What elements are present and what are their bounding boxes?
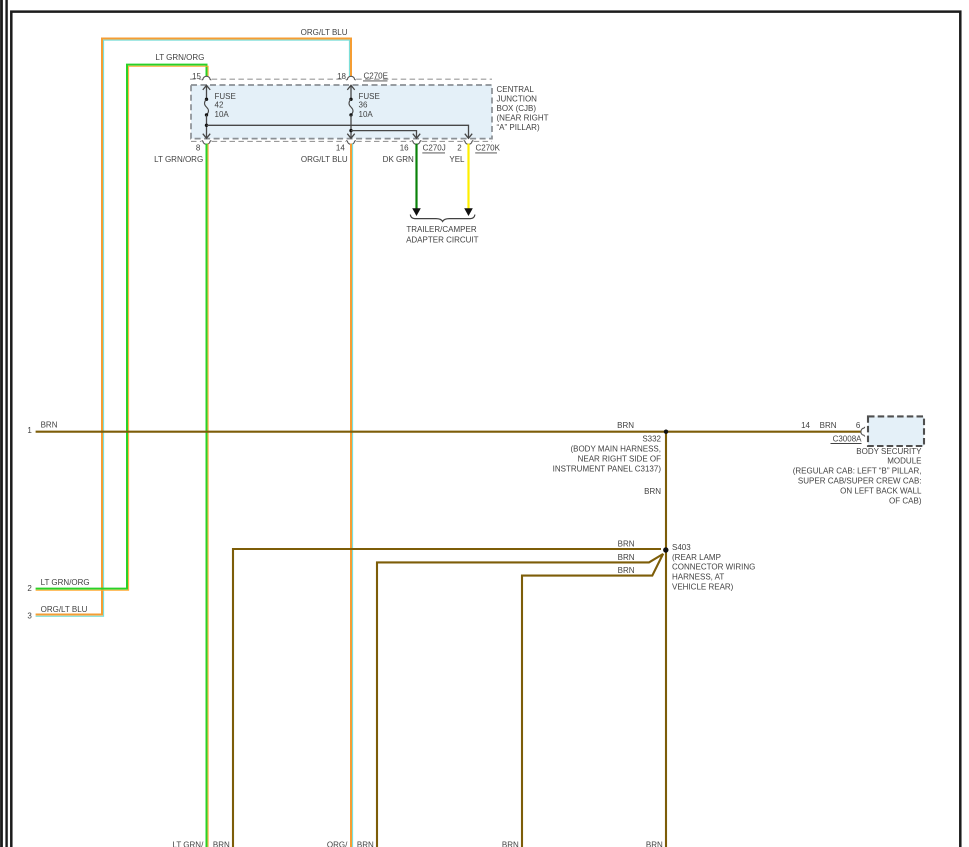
connector C270K label — [475, 144, 500, 153]
svg-text:(REAR LAMP: (REAR LAMP — [672, 553, 721, 562]
svg-text:OF CAB): OF CAB) — [889, 496, 922, 505]
svg-text:BRN: BRN — [820, 421, 837, 430]
connector C270J label — [422, 144, 445, 153]
pin 2 connector cup — [464, 141, 474, 145]
svg-text:6: 6 — [856, 421, 861, 430]
svg-text:VEHICLE REAR): VEHICLE REAR) — [672, 582, 734, 591]
svg-text:C270E: C270E — [364, 72, 388, 81]
CJB connector C270E dashed line (top) — [190, 78, 492, 80]
brace trailer/camper adapter circuit — [410, 215, 475, 222]
central junction box CJB — [191, 85, 492, 139]
svg-text:18: 18 — [337, 72, 346, 81]
svg-text:ORG/LT BLU: ORG/LT BLU — [301, 28, 348, 37]
svg-text:CONNECTOR WIRING: CONNECTOR WIRING — [672, 563, 755, 572]
svg-text:DK GRN: DK GRN — [383, 155, 414, 164]
splice S403 label — [672, 543, 755, 591]
wire BRN vertical S332 to bottom — [665, 432, 667, 847]
svg-text:3: 3 — [27, 611, 32, 620]
page edge line 2 — [5, 0, 7, 847]
svg-text:(NEAR RIGHT: (NEAR RIGHT — [497, 113, 549, 122]
svg-text:TRAILER/CAMPER: TRAILER/CAMPER — [406, 225, 476, 234]
svg-text:(REGULAR CAB: LEFT “B” PILLAR,: (REGULAR CAB: LEFT “B” PILLAR, — [793, 467, 922, 476]
internal wire from F42 to pin 2 — [207, 125, 473, 138]
svg-text:C3008A: C3008A — [833, 434, 863, 443]
pin 8 connector cup — [202, 141, 212, 145]
pin 16 connector cup — [412, 141, 422, 145]
fuse F42 — [203, 85, 210, 138]
svg-text:BRN: BRN — [617, 421, 634, 430]
svg-text:BRN: BRN — [357, 841, 374, 847]
trailer/camper adapter circuit label — [406, 225, 479, 244]
wire ORG/LT BLU : from net 3 up over to CJB pin 18 — [36, 39, 351, 617]
svg-text:BRN: BRN — [41, 421, 58, 430]
splice S332 — [664, 430, 668, 434]
svg-text:INSTRUMENT PANEL C3137): INSTRUMENT PANEL C3137) — [553, 464, 662, 473]
fuse F36 — [347, 85, 354, 138]
svg-text:HARNESS, AT: HARNESS, AT — [672, 572, 724, 581]
svg-text:BOX (CJB): BOX (CJB) — [497, 104, 537, 113]
fuse F42 value label — [215, 92, 236, 119]
svg-text:2: 2 — [457, 144, 462, 153]
svg-text:8: 8 — [196, 144, 201, 153]
svg-text:ADAPTER CIRCUIT: ADAPTER CIRCUIT — [406, 235, 479, 244]
svg-text:ORG/LT BLU: ORG/LT BLU — [301, 155, 348, 164]
svg-text:LT GRN/ORG: LT GRN/ORG — [155, 53, 204, 62]
svg-text:LT GRN/: LT GRN/ — [172, 841, 204, 847]
svg-text:NEAR RIGHT SIDE OF: NEAR RIGHT SIDE OF — [578, 455, 662, 464]
pin 18 connector cup — [346, 76, 356, 80]
svg-text:C270J: C270J — [423, 144, 446, 153]
svg-text:ORG/: ORG/ — [327, 841, 348, 847]
wire LT GRN/ORG from pin 8 down — [207, 144, 209, 847]
svg-text:YEL: YEL — [449, 155, 465, 164]
svg-text:S332: S332 — [642, 435, 661, 444]
arrowhead DK GRN to trailer circuit — [412, 208, 421, 216]
svg-text:2: 2 — [27, 584, 32, 593]
svg-text:42: 42 — [215, 100, 224, 109]
svg-text:MODULE: MODULE — [887, 457, 921, 466]
internal wire from F36 to pin 16 — [351, 131, 420, 139]
svg-text:BRN: BRN — [618, 539, 635, 548]
svg-text:“A” PILLAR): “A” PILLAR) — [497, 123, 540, 132]
svg-text:ORG/LT BLU: ORG/LT BLU — [41, 605, 88, 614]
svg-text:LT GRN/ORG: LT GRN/ORG — [154, 155, 203, 164]
pin 15 connector cup — [202, 76, 212, 80]
svg-text:CENTRAL: CENTRAL — [497, 85, 535, 94]
wire YEL from pin 2 — [467, 144, 469, 210]
svg-text:14: 14 — [801, 421, 810, 430]
svg-text:10A: 10A — [215, 110, 230, 119]
fuse F36 value label — [359, 92, 380, 119]
svg-text:16: 16 — [400, 144, 409, 153]
svg-text:15: 15 — [192, 72, 201, 81]
wire LT GRN/ORG : from net 2 up over to CJB pin 15 — [36, 65, 209, 591]
wire ORG/LT BLU from pin 14 down — [351, 144, 353, 847]
splice S332 label — [553, 435, 662, 474]
svg-text:SUPER CAB/SUPER CREW CAB:: SUPER CAB/SUPER CREW CAB: — [798, 477, 922, 486]
wire BRN branch B (to S403) — [377, 554, 663, 847]
svg-text:10A: 10A — [359, 110, 374, 119]
svg-text:BRN: BRN — [618, 566, 635, 575]
pin 14 connector cup — [346, 141, 356, 145]
body security module label — [793, 447, 922, 506]
connector C270E label — [363, 72, 388, 81]
svg-text:BODY SECURITY: BODY SECURITY — [856, 447, 922, 456]
svg-text:BRN: BRN — [644, 487, 661, 496]
page edge line 1 — [0, 0, 3, 847]
svg-text:BRN: BRN — [502, 841, 519, 847]
CJB bottom connector dashed line — [191, 140, 492, 142]
connector C3008A label — [831, 434, 863, 443]
svg-text:C270K: C270K — [476, 144, 501, 153]
body security module box — [868, 416, 924, 446]
svg-text:JUNCTION: JUNCTION — [497, 95, 538, 104]
svg-text:(BODY MAIN HARNESS,: (BODY MAIN HARNESS, — [570, 445, 661, 454]
svg-text:BRN: BRN — [213, 841, 230, 847]
svg-text:BRN: BRN — [618, 553, 635, 562]
svg-text:ON LEFT BACK WALL: ON LEFT BACK WALL — [840, 486, 922, 495]
svg-text:LT GRN/ORG: LT GRN/ORG — [41, 578, 90, 587]
CJB name label — [497, 85, 549, 132]
svg-text:S403: S403 — [672, 543, 691, 552]
wire BRN branch C (to S403) — [522, 554, 663, 847]
pin 6 connector cup — [861, 427, 865, 437]
svg-text:36: 36 — [359, 100, 368, 109]
svg-text:14: 14 — [336, 144, 345, 153]
svg-text:1: 1 — [27, 426, 32, 435]
wire BRN branch A (to S403) — [233, 549, 661, 847]
splice S403 — [663, 547, 668, 552]
wire BRN net 1 horizontal — [36, 431, 862, 433]
arrowhead YEL to trailer circuit — [464, 208, 473, 216]
svg-text:BRN: BRN — [646, 841, 663, 847]
wire DK GRN from pin 16 — [415, 144, 417, 210]
